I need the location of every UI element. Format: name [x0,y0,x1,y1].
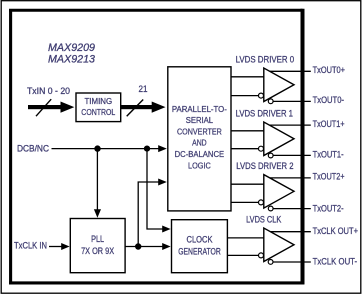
block CLOCK GENERATOR [172,220,228,273]
bus arrow TxIN 0-20 into timing control [28,102,74,113]
svg-text:TxOUT1-: TxOUT1- [313,150,344,160]
LVDS CLK buffer [259,228,295,264]
svg-text:AND: AND [192,138,207,148]
wire PLL output to serial logic (elbow up) [138,179,167,247]
svg-text:PLL: PLL [91,234,104,244]
LVDS driver 2 buffer [259,175,295,211]
svg-text:TxOUT0-: TxOUT0- [313,95,344,105]
wire TxOUT0- [271,100,311,102]
svg-text:TIMING: TIMING [84,96,112,106]
svg-text:TxIN 0 - 20: TxIN 0 - 20 [27,86,70,96]
wire TxCLK IN arrow [49,243,70,250]
block TIMING CONTROL [76,93,121,122]
svg-text:LVDS DRIVER 1: LVDS DRIVER 1 [236,109,293,119]
svg-text:CONVERTER: CONVERTER [177,127,222,137]
wire DCB/NC [52,145,167,152]
slash TxIN bus [36,99,51,116]
wire PLL output to clock generator [125,243,171,250]
wire TxCLK OUT- [271,261,311,263]
svg-text:TxOUT2+: TxOUT2+ [313,172,345,182]
junction dot at PLL branch [94,145,100,151]
wire serial logic to LVDS driver 2 (in-) [231,201,258,203]
svg-text:MAX9213: MAX9213 [48,53,95,65]
wire clock generator to LVDS CLK (in-) [227,254,258,256]
wire serial logic to LVDS driver 0 (in-) [231,95,258,97]
junction dot at clock-gen branch [144,146,150,152]
svg-text:7X OR 9X: 7X OR 9X [81,246,114,256]
svg-text:GENERATOR: GENERATOR [178,246,221,256]
bus arrow 21-bit into serial converter [121,102,166,113]
wire TxOUT1- [271,154,311,156]
block PARALLEL-TO-SERIAL CONVERTER AND DC-BALANCE LOGIC [168,67,231,211]
wire TxOUT2+ [269,177,311,179]
wire serial logic to LVDS driver 1 (in+) [231,130,264,132]
junction dot on PLL output [135,243,141,249]
svg-text:LVDS CLK: LVDS CLK [246,215,281,225]
wire serial logic to LVDS driver 2 (in+) [231,183,264,185]
svg-text:SERIAL: SERIAL [186,115,214,125]
svg-text:DCB/NC: DCB/NC [17,144,50,154]
wire DCB to PLL (vertical, arrow down) [94,149,101,218]
svg-text:21: 21 [139,84,148,94]
svg-text:LVDS DRIVER 0: LVDS DRIVER 0 [236,54,295,64]
wire serial logic to LVDS driver 0 (in+) [231,76,264,78]
wire serial logic to LVDS driver 1 (in-) [231,148,258,150]
wire TxOUT1+ [269,124,311,126]
svg-text:TxOUT0+: TxOUT0+ [313,65,345,75]
IC boundary thick box [9,9,304,285]
block PLL 7X OR 9X [70,219,125,273]
slash 21-bit bus [127,100,144,117]
LVDS driver 1 buffer [259,122,295,158]
svg-text:DC-BALANCE: DC-BALANCE [175,149,225,159]
wire TxCLK OUT+ [269,231,311,233]
svg-text:CLOCK: CLOCK [187,235,213,245]
wire DCB to clock generator (elbow) [147,149,171,233]
wire clock generator to LVDS CLK (in+) [227,237,263,239]
svg-text:PARALLEL-TO-: PARALLEL-TO- [172,104,227,114]
svg-text:MAX9209: MAX9209 [48,42,95,54]
svg-text:CONTROL: CONTROL [81,107,115,117]
svg-text:TxCLK IN: TxCLK IN [14,241,47,251]
LVDS driver 0 buffer [259,68,295,104]
svg-text:TxOUT1+: TxOUT1+ [313,119,345,129]
svg-text:TxCLK OUT-: TxCLK OUT- [313,257,358,267]
wire TxOUT0+ [269,70,311,72]
svg-text:TxOUT2-: TxOUT2- [313,204,344,214]
svg-text:LVDS DRIVER 2: LVDS DRIVER 2 [236,161,293,171]
wire TxOUT2- [271,208,311,210]
svg-text:TxCLK OUT+: TxCLK OUT+ [313,226,358,236]
svg-text:LOGIC: LOGIC [188,160,211,170]
